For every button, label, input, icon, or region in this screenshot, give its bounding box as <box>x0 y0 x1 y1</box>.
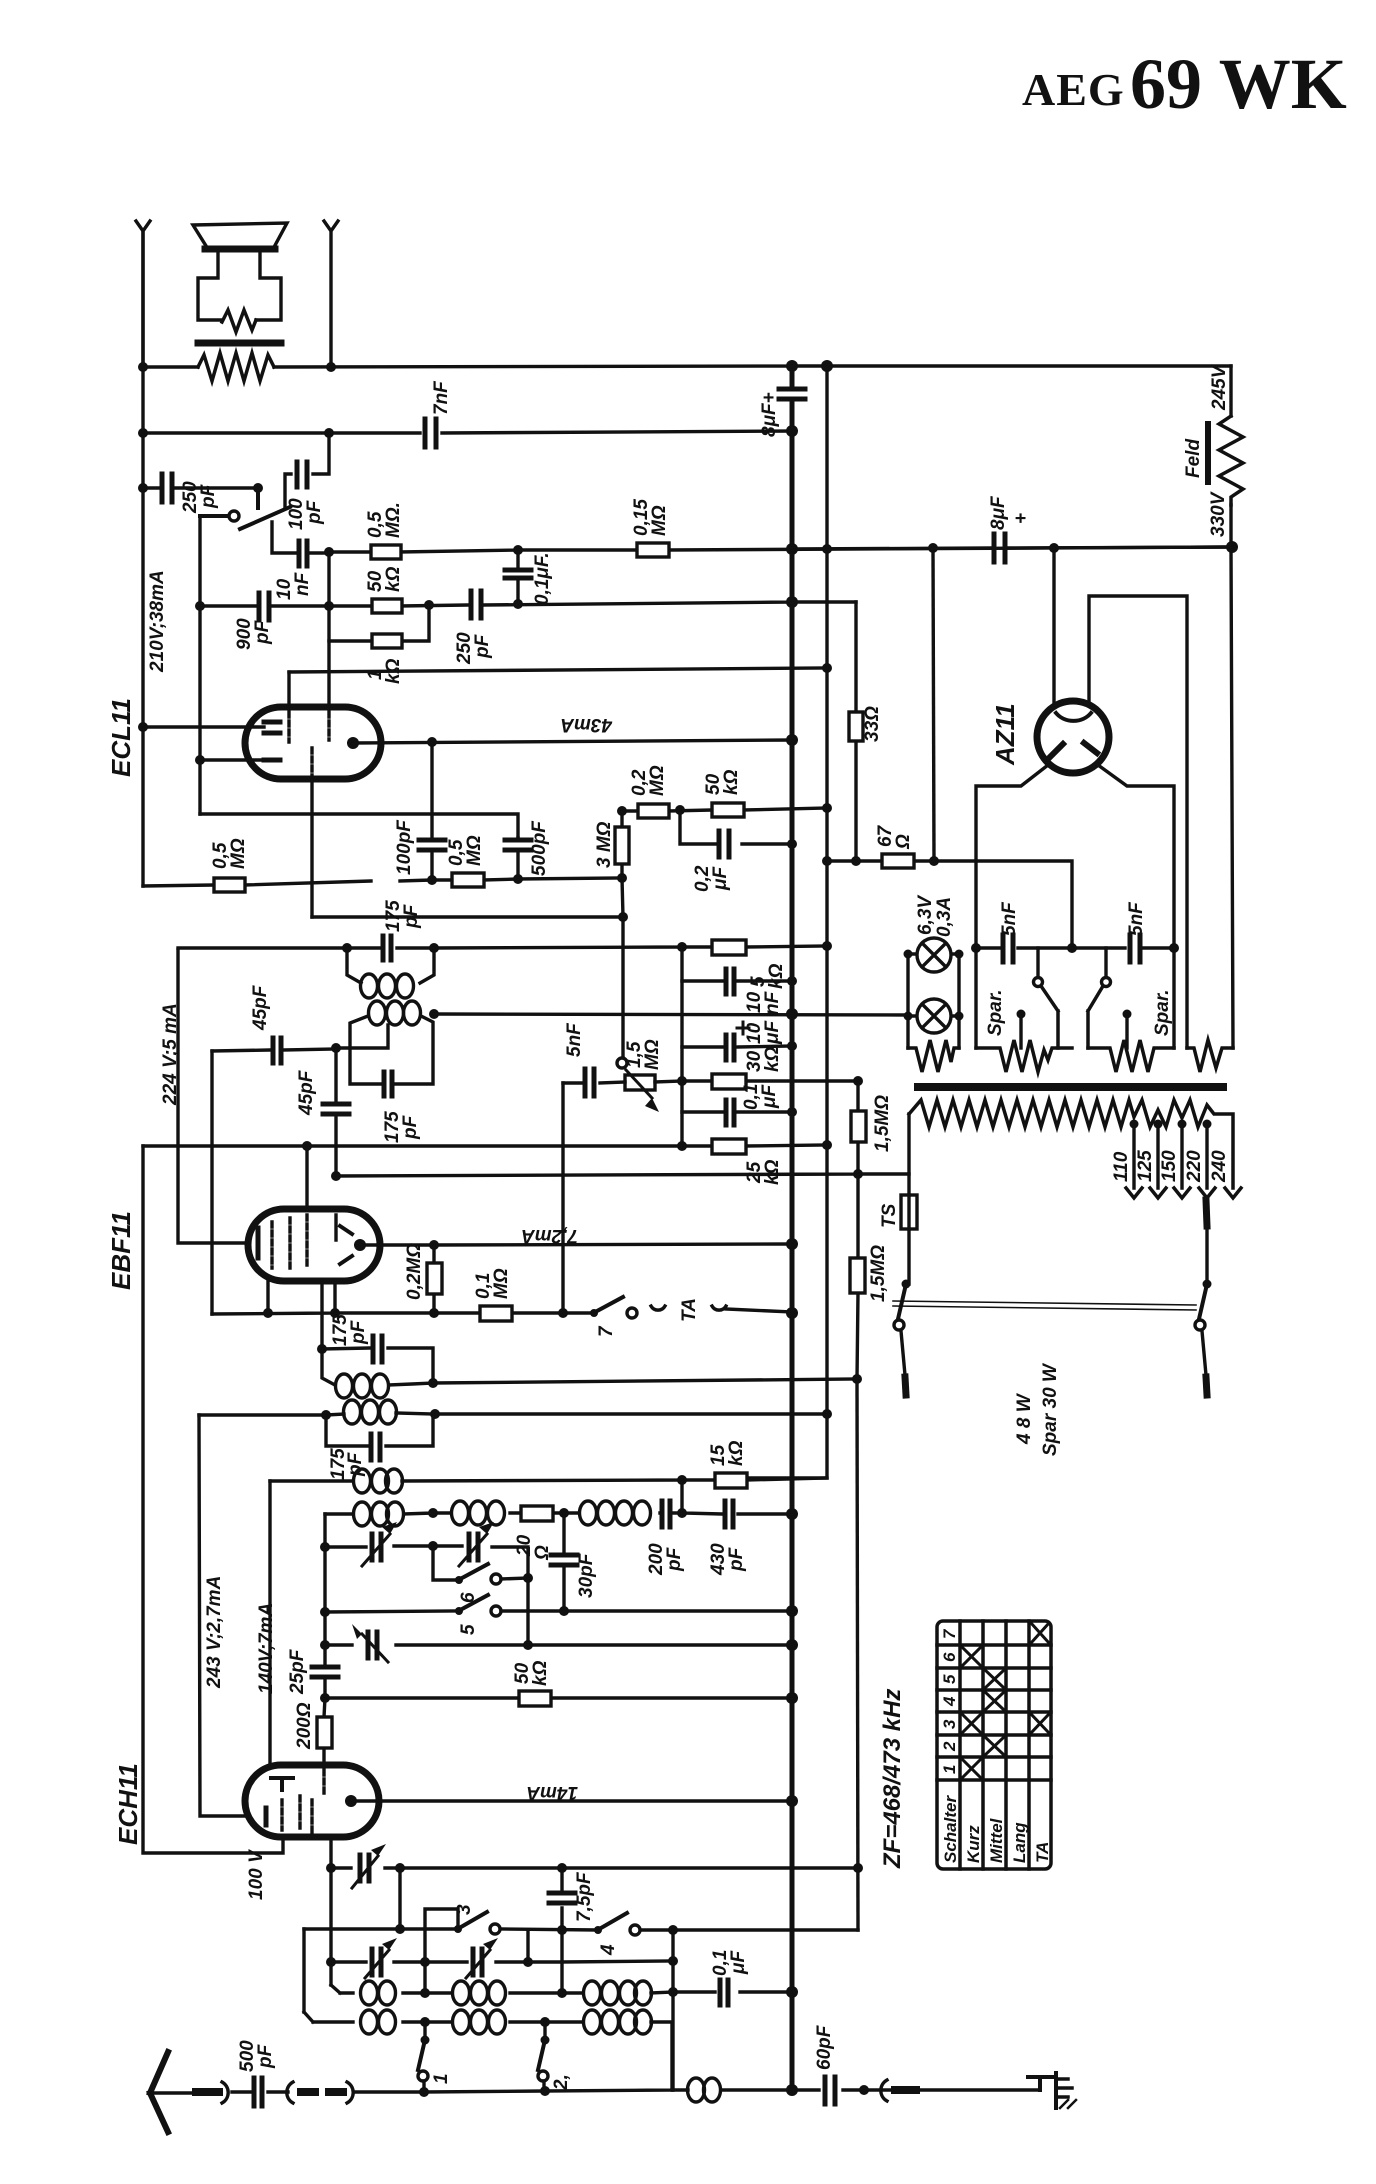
transformer primary winding <box>909 1100 1233 1188</box>
node top-left <box>138 362 148 372</box>
wire x673 <box>671 1930 674 2090</box>
wire x304 <box>302 1929 305 2012</box>
node <box>395 1924 405 1934</box>
svg-text:110: 110 <box>1111 1151 1132 1182</box>
loudspeaker <box>193 223 287 343</box>
switch 1 <box>418 2022 452 2091</box>
node <box>677 1508 687 1518</box>
node <box>263 1308 273 1318</box>
wire ECL g1 y727 <box>143 725 264 728</box>
node <box>677 1475 687 1485</box>
node <box>786 1307 798 1319</box>
tuning cap osc (variable) <box>352 1624 388 1662</box>
node <box>320 1640 330 1650</box>
svg-text:ECH11: ECH11 <box>113 1763 143 1845</box>
svg-text:Ω: Ω <box>893 834 914 850</box>
node <box>557 1925 567 1935</box>
node antenna2 <box>326 362 336 372</box>
node <box>786 1008 798 1020</box>
svg-text:Feld: Feld <box>1183 439 1204 478</box>
node <box>523 1957 533 1967</box>
wire x563 TA feed <box>561 1083 564 1313</box>
svg-text:pF: pF <box>664 1546 685 1572</box>
node <box>326 1863 336 1873</box>
wire row y1415 <box>199 1414 827 1415</box>
capacitor 0,2uF <box>680 810 792 892</box>
resistor 0,15MOhm <box>631 499 670 557</box>
node <box>822 941 832 951</box>
svg-text:MΩ: MΩ <box>647 765 668 796</box>
wire EBF anode row <box>360 1244 792 1245</box>
wire x143 lower <box>143 1146 283 1853</box>
node <box>138 483 148 493</box>
switch 2 <box>538 2022 572 2091</box>
svg-text:2: 2 <box>940 1741 959 1752</box>
svg-text:150: 150 <box>1159 1150 1180 1182</box>
wire row y432 <box>143 431 792 433</box>
switch 3 <box>454 1904 500 1934</box>
svg-text:0,2MΩ: 0,2MΩ <box>404 1243 425 1300</box>
node <box>419 2087 429 2097</box>
wire x857 ZF line <box>857 1379 858 1930</box>
svg-text:pF: pF <box>348 1319 369 1345</box>
coil osc a <box>354 1502 404 1526</box>
svg-text:5nF: 5nF <box>1126 901 1147 936</box>
node <box>618 912 628 922</box>
svg-text:pF: pF <box>400 1114 421 1140</box>
switch Spar left <box>985 948 1058 1048</box>
tube EBF11 <box>248 1209 380 1281</box>
bus x827 <box>744 366 827 1478</box>
capacitor 25pF <box>287 1648 338 1695</box>
switch 6 <box>433 1546 533 1603</box>
wire x270 osc grid <box>268 1481 271 1767</box>
node <box>675 805 685 815</box>
resistor 20Ohm <box>514 1506 553 1561</box>
svg-text:ZF=468/473 kHz: ZF=468/473 kHz <box>879 1689 906 1869</box>
resistor 25kOhm <box>677 1081 832 1185</box>
wire row y881 <box>143 878 622 886</box>
capacitor 8uF b <box>988 495 1032 562</box>
svg-text:8μF: 8μF <box>988 495 1009 530</box>
svg-text:Kurz: Kurz <box>964 1825 983 1863</box>
svg-text:5nF: 5nF <box>999 901 1020 936</box>
capacitor 430pF <box>708 1501 798 1576</box>
svg-text:Spar.: Spar. <box>985 990 1006 1036</box>
svg-text:5: 5 <box>940 1674 959 1684</box>
capacitor 60pF <box>814 2024 869 2104</box>
svg-text:30pF: 30pF <box>576 1552 597 1598</box>
wire left edge x143 upper <box>141 231 144 886</box>
node <box>331 1043 341 1053</box>
svg-text:5nF: 5nF <box>564 1022 585 1057</box>
speaker terminal right <box>324 221 338 367</box>
wire row y1146 AVC <box>143 1144 682 1147</box>
svg-text:kΩ: kΩ <box>383 566 404 592</box>
wire row y1930 <box>304 1929 858 1930</box>
wire x425 switch3 feed <box>425 1909 458 1993</box>
svg-text:210V;38mA: 210V;38mA <box>147 570 168 673</box>
ground <box>1028 2073 1076 2108</box>
trimmer cap band2 <box>466 1938 498 1978</box>
node <box>138 722 148 732</box>
resistor 50kOhm c <box>703 769 744 817</box>
svg-text:pF: pF <box>726 1546 747 1572</box>
node <box>302 1141 312 1151</box>
capacitor 0,1uF coupling <box>505 550 553 605</box>
wire row y606 <box>200 602 856 606</box>
svg-text:TA: TA <box>1033 1842 1052 1863</box>
volume potentiometer wiper <box>200 488 290 529</box>
resistor 1,5MOhm vertical b <box>850 1174 889 1379</box>
resistor 0,5MOhm a <box>365 502 404 559</box>
resistor 0,2MOhm <box>629 765 669 818</box>
trimmer cap osc anode <box>352 1844 386 1888</box>
node <box>822 856 832 866</box>
svg-text:ECL11: ECL11 <box>106 698 136 777</box>
wire x528 switch3 to padder <box>526 1930 529 1962</box>
svg-text:AEG: AEG <box>1022 64 1125 115</box>
svg-text:500pF: 500pF <box>529 820 550 876</box>
node <box>253 483 263 493</box>
node <box>395 1863 405 1873</box>
capacitor 30pF vertical <box>551 1513 597 1611</box>
wire x178 <box>178 950 248 1243</box>
wire row y672 <box>289 668 827 672</box>
switch table <box>937 1621 1051 1869</box>
wire EBF diode pins <box>268 1281 335 1349</box>
IF transformer T1 primary 175pF <box>317 1314 438 1398</box>
svg-text:kΩ: kΩ <box>762 1159 783 1185</box>
node <box>853 1169 863 1179</box>
svg-text:200Ω: 200Ω <box>294 1702 315 1750</box>
bus thick x792 <box>790 366 795 2090</box>
coil row C upper y1993 <box>331 1981 678 2005</box>
node <box>821 360 833 372</box>
svg-text:TS: TS <box>879 1203 900 1228</box>
node <box>1169 943 1179 953</box>
IF transformer T1 secondary <box>321 1400 440 1480</box>
node <box>668 1956 678 1966</box>
svg-text:43mA: 43mA <box>560 714 613 735</box>
resistor 0,5MOhm d <box>446 835 485 887</box>
svg-text:1,5MΩ: 1,5MΩ <box>868 1245 889 1302</box>
resistor 3MOhm vertical <box>594 811 629 878</box>
svg-text:7,5pF: 7,5pF <box>574 1871 595 1922</box>
wire row y810 <box>622 808 827 811</box>
node <box>513 599 523 609</box>
node <box>1226 541 1238 553</box>
coil osc b <box>452 1501 505 1525</box>
svg-text:7: 7 <box>940 1628 959 1639</box>
svg-text:kΩ: kΩ <box>762 1046 783 1072</box>
svg-text:25pF: 25pF <box>287 1648 308 1695</box>
svg-text:pF: pF <box>472 633 493 659</box>
node <box>540 2086 550 2096</box>
wire row y861 67Ohm <box>827 861 1072 948</box>
svg-text:Mittel: Mittel <box>987 1817 1006 1863</box>
node <box>617 873 627 883</box>
svg-text:245V: 245V <box>1209 364 1230 411</box>
wire x682 <box>680 1480 683 1513</box>
node <box>786 543 798 555</box>
IF transformer T2 secondary <box>336 1001 439 1143</box>
node <box>326 1957 336 1967</box>
capacitor 0,1uF bottom <box>673 1950 798 2005</box>
wire cathode x623 <box>622 878 623 1058</box>
svg-text:5: 5 <box>458 1624 479 1635</box>
wire AZ11 anode right loop <box>1089 596 1187 1048</box>
node <box>822 803 832 813</box>
node <box>677 942 687 952</box>
svg-text:220: 220 <box>1184 1150 1205 1183</box>
switch coupling link <box>893 1301 1196 1310</box>
wire top row y367 <box>143 366 1231 367</box>
wire 856 vertical + resistor 33Ohm <box>849 602 883 861</box>
svg-text:Schalter: Schalter <box>941 1795 960 1863</box>
node <box>786 734 798 746</box>
node <box>429 1240 439 1250</box>
svg-text:4 8 W: 4 8 W <box>1014 1392 1035 1445</box>
node <box>668 1925 678 1935</box>
resistor 0,5MOhm c <box>210 838 249 892</box>
trimmer cap osc1 <box>362 1522 397 1566</box>
wire x934 <box>933 548 934 861</box>
node <box>330 1308 340 1318</box>
svg-text:nF: nF <box>762 990 783 1015</box>
transformer core bar <box>918 1083 1223 1091</box>
svg-text:pF: pF <box>401 903 422 929</box>
table X marks <box>962 1623 1049 1778</box>
wire row y1313 <box>212 1313 594 1314</box>
capacitor 500pF <box>505 820 550 879</box>
node <box>822 663 832 673</box>
capacitor 7,5pF <box>549 1868 595 1993</box>
svg-text:MΩ: MΩ <box>649 505 670 536</box>
ground coupling connector <box>881 2080 916 2101</box>
svg-text:MΩ: MΩ <box>491 1268 512 1299</box>
resistor 15kOhm <box>708 1440 747 1488</box>
svg-text:kΩ: kΩ <box>766 963 787 989</box>
resistor 50kOhm b <box>365 566 404 613</box>
node <box>513 545 523 555</box>
svg-text:μF: μF <box>710 866 731 891</box>
svg-text:224 V;5 mA: 224 V;5 mA <box>160 1003 181 1106</box>
wire x212 <box>210 1051 213 1314</box>
svg-text:AZ11: AZ11 <box>990 703 1020 766</box>
svg-text:60pF: 60pF <box>814 2024 835 2070</box>
wire x325 osc left <box>323 1514 326 1698</box>
svg-text:240: 240 <box>1209 1150 1230 1183</box>
node <box>787 839 797 849</box>
node <box>324 601 334 611</box>
node <box>1067 943 1077 953</box>
wire row y1547 trimmer <box>325 1546 528 1578</box>
node <box>324 428 334 438</box>
wire ECL g2 y760 <box>200 758 264 761</box>
svg-text:Spar.: Spar. <box>1152 990 1173 1036</box>
wire row y1480 15k <box>270 1478 827 1481</box>
node <box>331 1171 341 1181</box>
node <box>195 601 205 611</box>
svg-text:7: 7 <box>596 1325 617 1337</box>
wire x400 <box>398 1868 401 1929</box>
svg-text:7nF: 7nF <box>431 380 452 415</box>
wire AZ11 filament legs <box>976 765 1174 1048</box>
svg-text:MΩ.: MΩ. <box>383 502 404 538</box>
svg-text:μF: μF <box>762 1020 783 1045</box>
svg-text:pF: pF <box>255 2043 276 2069</box>
mains switch right <box>1195 1200 1212 1395</box>
switch Spar right <box>1088 948 1173 1048</box>
svg-text:8μF+: 8μF+ <box>759 392 780 437</box>
capacitor 250pF <box>162 474 219 514</box>
wire ECH anode row 14mA <box>351 1799 792 1802</box>
capacitor 5nF b <box>1126 901 1147 962</box>
capacitor 900pF <box>234 593 273 650</box>
wire bottom row y2091 <box>424 2090 1040 2092</box>
mains switch left <box>894 1280 911 1396</box>
wire AZ11 anode left <box>1052 548 1055 712</box>
svg-text:45pF: 45pF <box>296 1069 317 1116</box>
svg-text:33Ω: 33Ω <box>862 706 883 742</box>
node <box>929 856 939 866</box>
svg-text:1,5MΩ: 1,5MΩ <box>872 1095 893 1152</box>
svg-text:pF: pF <box>252 619 273 645</box>
switch 5 row y1612 <box>320 1595 798 1635</box>
node <box>427 875 437 885</box>
svg-text:243 V;2,7mA: 243 V;2,7mA <box>204 1576 225 1689</box>
node <box>786 596 798 608</box>
svg-text:+: + <box>1011 513 1032 524</box>
capacitor 10uF electrolytic <box>682 981 797 1060</box>
svg-text:45pF: 45pF <box>250 984 271 1031</box>
svg-text:3: 3 <box>940 1719 959 1729</box>
wire right edge + resistor Feld <box>1183 364 1243 1048</box>
capacitor 200pF <box>646 1501 685 1576</box>
svg-text:μF: μF <box>759 1084 780 1109</box>
resistor 50kOhm osc <box>320 1660 798 1706</box>
svg-text:3 MΩ: 3 MΩ <box>594 821 615 868</box>
node <box>324 547 334 557</box>
mains taps <box>1111 1120 1241 1199</box>
label 48W Spar30W <box>1014 1362 1061 1456</box>
node <box>558 1308 568 1318</box>
wire row y1868 <box>331 1866 858 1869</box>
antenna <box>150 2052 194 2132</box>
node <box>1049 543 1059 553</box>
wire row y1514 osc <box>325 1513 792 1514</box>
coil antenna series <box>688 2078 721 2102</box>
switch 4 <box>594 1913 640 1956</box>
volume pot 1,5MOhm <box>617 1039 682 1112</box>
svg-text:69 WK: 69 WK <box>1130 44 1347 124</box>
capacitor 45pF b vertical <box>296 1048 349 1176</box>
winding break zigzags <box>908 1040 1233 1072</box>
wire grid x200 <box>198 516 201 606</box>
coil row D lower y2022 <box>304 2010 672 2090</box>
node <box>138 428 148 438</box>
resistor 67Ohm <box>875 824 914 868</box>
node <box>786 1238 798 1250</box>
svg-text:100pF: 100pF <box>394 819 415 875</box>
capacitor 10nF b <box>682 947 797 1015</box>
wire x307 to EBF <box>305 1146 308 1209</box>
wire x528 <box>526 1578 529 1645</box>
svg-text:0,3A: 0,3A <box>934 897 955 937</box>
table numbers <box>940 1628 1052 1863</box>
resistor 1,5MOhm vertical a <box>851 1081 893 1176</box>
wire x331 osc grid down <box>329 1836 332 1985</box>
svg-text:100 V: 100 V <box>246 1849 267 1900</box>
capacitor 5nF a <box>999 901 1020 962</box>
svg-text:kΩ: kΩ <box>530 1660 551 1686</box>
trimmer cap osc2 <box>459 1522 494 1566</box>
svg-text:pF: pF <box>198 483 219 509</box>
wire row y551 <box>329 547 1232 552</box>
svg-text:μF: μF <box>728 1950 749 1975</box>
wire row y1645 <box>325 1643 792 1646</box>
node <box>429 1308 439 1318</box>
wire anode row y742 <box>353 740 792 743</box>
svg-text:MΩ: MΩ <box>464 835 485 866</box>
capacitor 45pF a <box>212 984 336 1063</box>
node <box>786 360 798 372</box>
svg-text:pF: pF <box>304 499 325 525</box>
wire row y814 <box>200 814 518 838</box>
svg-text:140V;7mA: 140V;7mA <box>256 1603 277 1694</box>
tube ECH11 <box>245 1765 379 1837</box>
svg-text:4: 4 <box>598 1944 619 1956</box>
wire x312 tube bottom <box>310 779 313 917</box>
svg-text:nF: nF <box>292 571 313 596</box>
capacitor 8uF on bus <box>759 389 805 437</box>
svg-text:EBF11: EBF11 <box>106 1211 136 1290</box>
fuse TS <box>879 1114 917 1284</box>
wire row y917 <box>312 915 623 918</box>
wire x200 segment <box>198 606 201 814</box>
wire x199 cathode ECH <box>199 1415 253 1816</box>
wire row y948 5nF row <box>976 946 1174 949</box>
wire row y547 <box>792 547 1232 549</box>
node <box>428 1541 438 1551</box>
node <box>822 544 832 554</box>
dial lamps 6,3V 0,3A <box>904 895 964 1048</box>
capacitor 0,1uF b <box>682 1084 797 1125</box>
svg-text:330V: 330V <box>1208 491 1229 537</box>
capacitor 100pF anode <box>394 742 445 880</box>
wire row y1176 <box>336 1174 909 1176</box>
svg-text:14mA: 14mA <box>526 1782 578 1803</box>
node <box>557 1863 567 1873</box>
node <box>853 1863 863 1873</box>
wire row y948 IF <box>178 946 827 948</box>
node <box>928 543 938 553</box>
svg-text:MΩ: MΩ <box>228 838 249 869</box>
capacitor 5nF AF <box>563 1022 625 1096</box>
node <box>822 1409 832 1419</box>
node <box>428 1508 438 1518</box>
node <box>320 1542 330 1552</box>
node <box>427 737 437 747</box>
svg-text:1: 1 <box>940 1765 959 1774</box>
capacitor 250pF b <box>454 591 493 665</box>
svg-text:0,1μF.: 0,1μF. <box>532 552 553 605</box>
svg-text:4: 4 <box>940 1696 959 1707</box>
svg-text:kΩ: kΩ <box>721 769 742 795</box>
node <box>617 806 627 816</box>
node <box>523 1640 533 1650</box>
